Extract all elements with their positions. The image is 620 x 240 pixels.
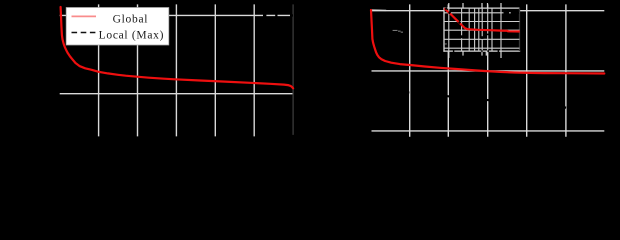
- svg-text:Local (Max): Local (Max): [99, 29, 165, 41]
- svg-text:Global: Global: [113, 14, 149, 26]
